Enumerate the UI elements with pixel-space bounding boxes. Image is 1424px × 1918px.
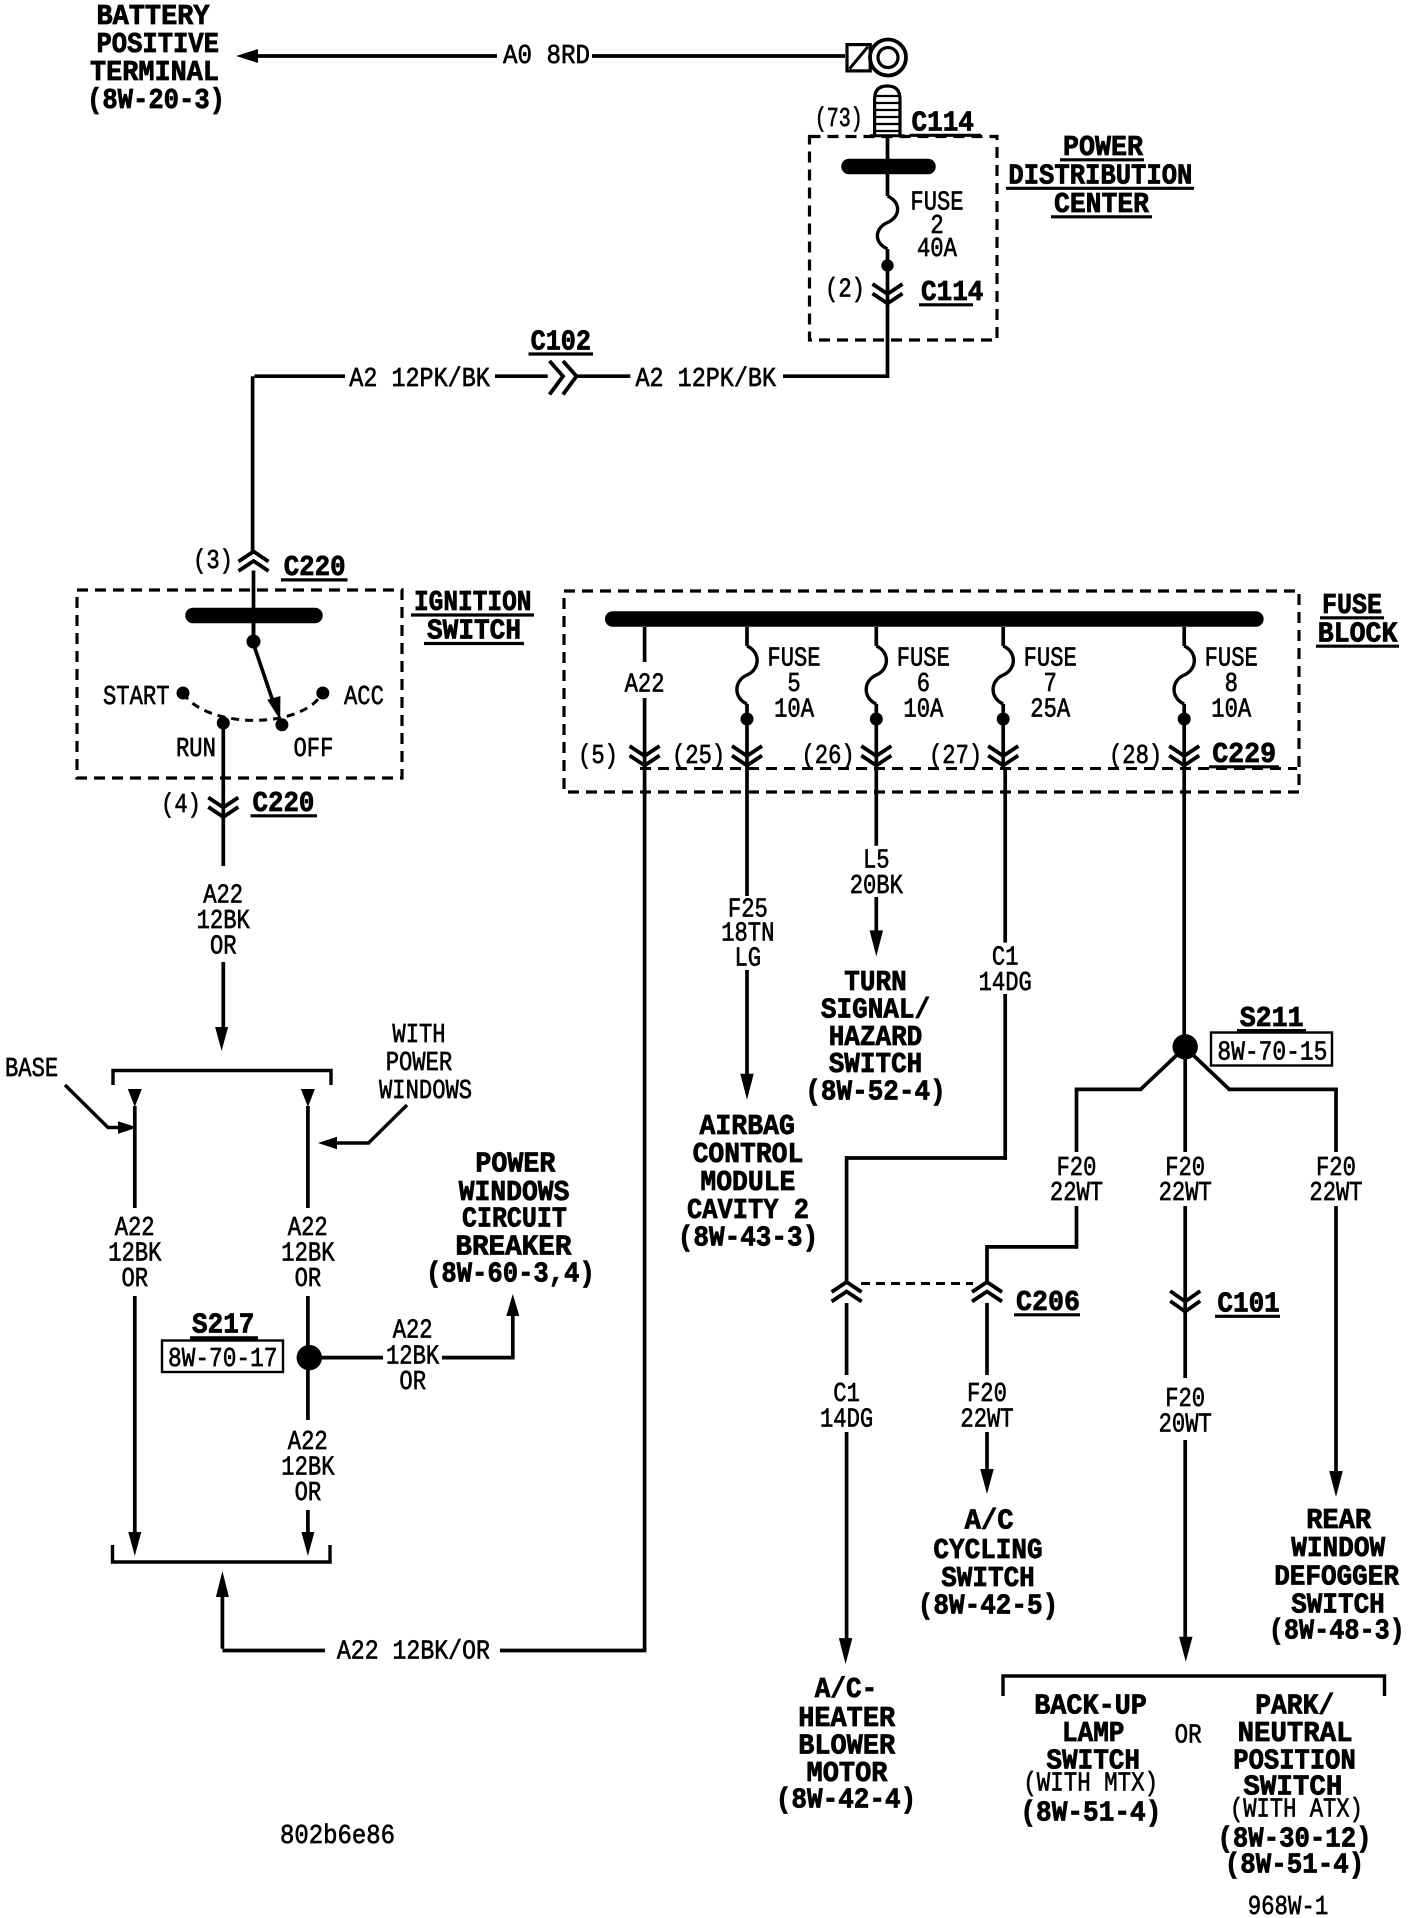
fuse 8 element (1174, 646, 1194, 704)
svg-text:A2 12PK/BK: A2 12PK/BK (636, 365, 777, 395)
svg-text:ACC: ACC (344, 683, 384, 713)
arrowhead into left branch (128, 1089, 142, 1107)
junction dot PDC (881, 259, 893, 271)
ring terminal eyelet (847, 40, 906, 76)
junction dot col4 (997, 713, 1010, 726)
arrowhead to battery terminal (236, 49, 258, 63)
svg-text:(73): (73) (815, 105, 863, 135)
bracket output arrowhead (216, 1571, 229, 1597)
wire col1 A22 (643, 627, 647, 792)
svg-text:A22 12BK/OR: A22 12BK/OR (337, 1638, 490, 1668)
svg-text:(8W-51-4): (8W-51-4) (1225, 1849, 1365, 1882)
svg-text:20WT: 20WT (1159, 1411, 1212, 1441)
wire A2 12PK/BK (253, 376, 888, 553)
svg-text:(WITH MTX): (WITH MTX) (1023, 1770, 1158, 1800)
svg-text:OR: OR (210, 933, 237, 963)
splice S211 (1173, 1034, 1198, 1059)
svg-text:25A: 25A (1030, 695, 1071, 725)
svg-text:(8W-52-4): (8W-52-4) (805, 1076, 945, 1109)
svg-text:(4): (4) (161, 791, 201, 821)
AC cycling switch label (918, 1504, 1058, 1622)
connector C102 chevrons (550, 361, 577, 395)
connector C114 (73) body (870, 86, 905, 136)
PDC bus bar (849, 159, 928, 175)
C206 dashed link (861, 1282, 973, 1285)
svg-text:(25): (25) (672, 742, 725, 772)
label C114 top (910, 107, 982, 140)
junction dot col2 (741, 713, 754, 726)
bottom-right bracket (1003, 1676, 1385, 1696)
connector C229 chevron (27) (988, 746, 1018, 766)
svg-text:(8W-20-3): (8W-20-3) (87, 84, 225, 117)
connector C229 chevron (28) (1169, 746, 1199, 766)
label FUSE 5 10A (767, 645, 820, 726)
S211 right branch wire (1191, 1053, 1338, 1472)
junction dot col5 (1178, 713, 1191, 726)
right branch wire (306, 1106, 310, 1533)
svg-text:(3): (3) (193, 547, 233, 577)
svg-text:OR: OR (1175, 1721, 1202, 1751)
splice S217 (297, 1345, 322, 1370)
arrowhead blower (839, 1638, 853, 1664)
label L5 20BK (850, 846, 904, 902)
svg-text:(5): (5) (578, 742, 618, 772)
svg-text:BASE: BASE (5, 1055, 58, 1085)
arrowhead to circuit breaker (506, 1294, 519, 1316)
label A22 12BK OR S217 wire (386, 1317, 440, 1398)
power windows circuit breaker label (426, 1147, 595, 1290)
arrow WITH POWER WINDOWS callout (318, 1105, 407, 1149)
ignition switch box (77, 590, 402, 778)
label C206 (1014, 1286, 1080, 1319)
svg-text:14DG: 14DG (820, 1406, 873, 1436)
wire into ignition switch (252, 571, 256, 636)
wire C206 left to blower (845, 1303, 849, 1640)
park neutral position switch label (1218, 1690, 1372, 1882)
wire S217 to circuit breaker (321, 1316, 514, 1358)
svg-text:LG: LG (735, 945, 762, 975)
label FUSE 7 25A (1024, 645, 1077, 726)
label FUSE 6 10A (897, 645, 950, 726)
wire col5 (1182, 627, 1186, 770)
label C220 bottom (251, 787, 318, 820)
svg-text:802b6e86: 802b6e86 (280, 1822, 395, 1852)
wire A0 8RD (254, 54, 845, 58)
wire RUN output (221, 723, 225, 1028)
svg-text:OR: OR (122, 1265, 149, 1295)
svg-text:A/C: A/C (965, 1504, 1014, 1537)
arrowhead ignition feed (215, 1027, 228, 1051)
fuse 5 element (737, 646, 757, 704)
label F20 22WT lower (960, 1380, 1013, 1436)
label A22 12BK OR ignition feed (197, 882, 251, 963)
connector C206 chevron right (972, 1282, 1002, 1302)
svg-text:968W-1: 968W-1 (1248, 1893, 1329, 1918)
svg-text:(2): (2) (825, 276, 865, 306)
svg-text:(27): (27) (929, 742, 982, 772)
svg-text:A0 8RD: A0 8RD (503, 42, 590, 72)
svg-text:WITH: WITH (392, 1021, 445, 1051)
fuse block label (1316, 589, 1399, 650)
svg-text:A2 12PK/BK: A2 12PK/BK (349, 365, 490, 395)
svg-text:8W-70-17: 8W-70-17 (168, 1345, 278, 1375)
arrow BASE callout (65, 1085, 137, 1134)
connector C229 chevron (26) (861, 746, 891, 766)
wire bus to pivot (252, 615, 256, 641)
wire col5 to S211 (1182, 770, 1186, 1040)
svg-text:10A: 10A (774, 695, 815, 725)
svg-text:(WITH ATX): (WITH ATX) (1230, 1795, 1363, 1825)
arrowhead to park bracket (1179, 1637, 1193, 1662)
wire col2 (745, 627, 749, 770)
svg-text:10A: 10A (903, 695, 944, 725)
connector C220 (4) chevrons (208, 798, 238, 818)
switch pivot dot (247, 635, 261, 649)
label F20 22WT center (1159, 1154, 1212, 1209)
battery positive terminal label (87, 0, 225, 117)
fuse 2 element (877, 196, 897, 249)
arrowhead airbag (740, 1074, 754, 1100)
AC heater blower motor label (776, 1673, 916, 1817)
fuse 7 element (993, 646, 1013, 704)
svg-text:20BK: 20BK (850, 872, 904, 902)
contact dot RUN (217, 717, 230, 730)
svg-text:10A: 10A (1211, 695, 1252, 725)
label C101 (1215, 1288, 1280, 1321)
label F25 18TN LG (721, 895, 774, 974)
label WITH POWER WINDOWS (379, 1021, 472, 1107)
svg-text:(8W-60-3,4): (8W-60-3,4) (426, 1258, 595, 1291)
label C1 14DG lower (820, 1380, 873, 1436)
S211 reference box (1211, 1033, 1332, 1069)
wire PDC vertical (886, 136, 890, 378)
svg-text:POWER: POWER (386, 1049, 453, 1079)
bottom bracket (113, 1545, 331, 1562)
junction dot col3 (870, 713, 883, 726)
svg-text:(28): (28) (1109, 742, 1162, 772)
contact dot ACC (316, 687, 329, 700)
label A22 12BK OR right branch (281, 1214, 335, 1295)
svg-text:RUN: RUN (176, 735, 216, 765)
label C114 bottom (919, 276, 983, 309)
label C102 (529, 325, 594, 358)
label A22 12BK OR left branch (108, 1214, 162, 1295)
label C220 top (281, 551, 348, 584)
arrowhead rear defogger (1329, 1471, 1343, 1497)
wire col4 to C206 left (845, 770, 1007, 1282)
label F20 22WT left (1050, 1154, 1103, 1209)
wire C206 right to AC cycling (985, 1303, 989, 1470)
label A22 12BK OR below S217 (281, 1428, 335, 1509)
arrowhead AC cycling (980, 1469, 994, 1494)
wire bracket to fuse block A22 (222, 792, 646, 1651)
S211 left branch wire (986, 1053, 1180, 1282)
svg-text:8W-70-15: 8W-70-15 (1217, 1039, 1327, 1069)
ignition bus bar (193, 608, 315, 624)
fuse block bus bar (613, 611, 1256, 627)
switch arm (254, 644, 273, 700)
svg-text:(8W-48-3): (8W-48-3) (1269, 1615, 1405, 1648)
label F20 22WT right (1309, 1154, 1362, 1209)
connector C206 chevron left (832, 1282, 862, 1302)
svg-text:A22: A22 (625, 671, 665, 701)
power distribution center box (810, 137, 998, 341)
wire col3 to turn signal (874, 770, 878, 932)
switch rotation arc (183, 693, 323, 720)
top bracket (113, 1071, 331, 1086)
svg-text:(8W-51-4): (8W-51-4) (1020, 1797, 1161, 1830)
label C229 (1209, 738, 1279, 771)
arrowhead left branch bottom (128, 1532, 141, 1556)
switch arm arrowhead (267, 696, 280, 720)
airbag control module label (678, 1110, 818, 1255)
svg-text:22WT: 22WT (1050, 1179, 1103, 1209)
label C1 14DG upper (979, 944, 1032, 999)
connector C101 chevrons (1170, 1291, 1200, 1312)
fuse block box (564, 591, 1299, 792)
back-up lamp switch label (1020, 1690, 1161, 1830)
label F20 20WT (1159, 1385, 1212, 1441)
turn signal hazard switch label (805, 966, 945, 1109)
fuse 6 element (866, 646, 886, 704)
svg-text:(8W-43-3): (8W-43-3) (678, 1222, 818, 1255)
svg-text:40A: 40A (917, 235, 958, 265)
S217 reference box (162, 1341, 283, 1376)
connector C220 (3) chevrons (239, 552, 269, 572)
power distribution center label (1006, 131, 1194, 221)
svg-text:OR: OR (295, 1265, 322, 1295)
svg-text:22WT: 22WT (960, 1406, 1013, 1436)
svg-text:OR: OR (399, 1368, 426, 1398)
left branch wire (133, 1106, 137, 1533)
svg-text:(8W-42-5): (8W-42-5) (918, 1589, 1058, 1622)
ignition switch label (411, 586, 534, 648)
svg-text:WINDOWS: WINDOWS (379, 1077, 472, 1107)
contact dot START (177, 687, 190, 700)
arrowhead turn signal (870, 930, 884, 956)
svg-text:14DG: 14DG (979, 969, 1032, 999)
S211 center branch wire (1183, 1053, 1187, 1639)
label FUSE 8 10A (1205, 645, 1258, 726)
wire col4 (1001, 627, 1005, 770)
svg-text:OFF: OFF (294, 735, 334, 765)
arrowhead right branch bottom (301, 1532, 314, 1556)
rear window defogger switch label (1269, 1504, 1405, 1647)
connector C114 (2) chevrons (873, 284, 903, 304)
svg-text:22WT: 22WT (1309, 1179, 1362, 1209)
label S217 (190, 1309, 258, 1342)
label FUSE 2 40A (910, 189, 963, 266)
label S211 (1237, 1002, 1306, 1035)
contact dot OFF (275, 718, 288, 731)
connector C229 chevron (5) (630, 746, 660, 766)
wire col2 to airbag (745, 770, 749, 1075)
svg-text:(26): (26) (802, 742, 855, 772)
svg-text:22WT: 22WT (1159, 1179, 1212, 1209)
connector C229 chevron (25) (732, 746, 762, 766)
svg-text:OR: OR (295, 1479, 322, 1509)
arrowhead into right branch (301, 1089, 315, 1107)
fuse block inner dashed line (640, 767, 1297, 770)
wire col3 (874, 627, 878, 770)
svg-text:START: START (103, 683, 170, 713)
svg-text:(8W-42-4): (8W-42-4) (776, 1784, 916, 1817)
